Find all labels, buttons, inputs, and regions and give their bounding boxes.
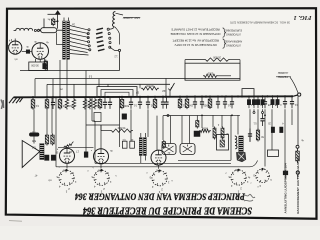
link 92-95 bbox=[92, 120, 95, 122]
drop x265 lower bbox=[264, 109, 266, 166]
capacitor C23 (dark) bbox=[122, 114, 127, 119]
wire x84-88 bbox=[85, 125, 87, 152]
fuse capsule F1 bbox=[29, 133, 39, 136]
drop x292 lower bbox=[291, 109, 293, 125]
R4 lead bbox=[218, 75, 231, 77]
switch position labels bbox=[97, 28, 104, 30]
capacitor Cb25 bbox=[217, 97, 219, 101]
drop x262 bbox=[262, 109, 264, 111]
drop x47 low bbox=[46, 109, 48, 133]
riser x35 bbox=[34, 79, 36, 97]
capacitor Ce1 (block) bbox=[248, 97, 250, 99]
wire F1 to speaker bbox=[33, 136, 35, 143]
output box bbox=[217, 135, 229, 151]
L2 bottom wire right bbox=[115, 27, 120, 45]
speaker magnet blob bbox=[237, 153, 246, 162]
bus junction dots bbox=[32, 96, 34, 98]
capacitor Cb16 bbox=[147, 98, 149, 102]
capacitor C14 (black) bbox=[45, 155, 49, 160]
capacitor Cb11 bbox=[104, 98, 106, 102]
terminal circle r1 bbox=[253, 112, 255, 114]
terminal T4 lead stub bbox=[285, 175, 287, 179]
V1 grid top lead bbox=[14, 39, 16, 42]
capsule left tip bbox=[38, 29, 41, 31]
V3 top lead bbox=[66, 147, 68, 148]
svg-text:5000: 5000 bbox=[202, 127, 208, 130]
svg-text:1M: 1M bbox=[190, 104, 193, 107]
wire S2 down bbox=[119, 52, 121, 71]
resistor Rb17 bbox=[154, 98, 156, 100]
V1 left lead bbox=[7, 45, 9, 47]
riser x60 bbox=[59, 71, 61, 97]
capacitor Cb26 bbox=[224, 97, 226, 101]
switch contact S2 bbox=[118, 49, 120, 51]
terminal circle m1 bbox=[167, 115, 169, 117]
tube V5 bbox=[151, 150, 166, 165]
output transformer T3 core bbox=[239, 136, 243, 152]
resistor Rz9 bbox=[93, 98, 96, 110]
earth terminal circle bbox=[298, 93, 301, 96]
svg-text:0,1: 0,1 bbox=[294, 103, 298, 106]
switch contact column 2 bbox=[107, 28, 109, 30]
drop x95 lower bbox=[94, 121, 96, 163]
capacitor Ce4 (block) bbox=[262, 97, 264, 99]
trimmer contact c1 bbox=[34, 29, 36, 31]
terminal circle r2 bbox=[262, 112, 264, 114]
capacitor Cb23 bbox=[201, 98, 203, 102]
resistor R8b bbox=[196, 119, 198, 121]
terminal block T4 bbox=[283, 171, 288, 175]
svg-text:EUROPEENNE: EUROPEENNE bbox=[225, 28, 242, 31]
switch wiper wire bbox=[110, 47, 118, 50]
riser x140 bbox=[139, 84, 141, 88]
riser x47 bbox=[46, 84, 48, 96]
V2 pin stubs bbox=[35, 59, 37, 62]
T2 top leads bbox=[140, 133, 142, 138]
R3 leads bbox=[184, 60, 186, 64]
capacitor C13 bbox=[249, 129, 251, 134]
aerial coil L2 bbox=[112, 12, 115, 27]
drop x163 lower bbox=[162, 116, 164, 140]
wire C2 to V2 bbox=[30, 51, 32, 53]
output transformer T3 primary coil bbox=[235, 136, 237, 149]
terminal circle above R12 bbox=[296, 145, 299, 148]
screen box dark cell bbox=[43, 63, 47, 68]
IF transformer T1 windings bbox=[63, 21, 66, 59]
drop x258 lower bbox=[257, 109, 259, 130]
drop x92 bbox=[91, 97, 93, 121]
D1 cross marks bbox=[165, 145, 174, 153]
small box right bbox=[242, 89, 254, 97]
V3 bottom stub bbox=[66, 163, 68, 168]
rail y115 dots bbox=[201, 115, 203, 117]
svg-text:FIG. 1: FIG. 1 bbox=[293, 14, 311, 21]
capacitor Cb22 bbox=[194, 98, 196, 102]
link R1 to lead bbox=[53, 20, 57, 22]
svg-text:5000: 5000 bbox=[123, 104, 129, 107]
resistor Rz6 bbox=[72, 98, 75, 110]
padder capsule C1 bbox=[41, 28, 57, 33]
svg-text:50.000: 50.000 bbox=[146, 84, 154, 87]
note brace lower bbox=[223, 39, 226, 48]
drop x238 bbox=[237, 115, 239, 134]
coil label underline bbox=[124, 17, 141, 19]
resistor R11 bbox=[257, 129, 259, 131]
resistor R8 zigzag bbox=[199, 129, 211, 132]
grid line y147 bbox=[58, 146, 94, 148]
tube V4 bbox=[94, 149, 109, 164]
capacitor C22 (dark) bbox=[280, 127, 283, 133]
T2 bottom leads bbox=[140, 156, 142, 164]
wire V1 to C2 bbox=[22, 51, 26, 53]
svg-text:AARDE: AARDE bbox=[277, 71, 289, 75]
capacitor Cb19 bbox=[166, 98, 168, 102]
drop x213 bbox=[212, 115, 214, 127]
resistor Rz7 bbox=[83, 98, 86, 110]
earth label underline bbox=[276, 76, 291, 78]
L1 left tail bbox=[14, 30, 16, 32]
wire riser to capsule bbox=[43, 19, 45, 28]
potentiometer wiper bbox=[168, 83, 174, 91]
resistor R1 bbox=[52, 18, 54, 20]
terminal circle T5 bbox=[296, 171, 299, 174]
capacitor Cb28 bbox=[264, 97, 266, 101]
pot body wire bbox=[169, 91, 171, 97]
capacitor C12 (black) bbox=[194, 131, 200, 137]
rail y166 hook bbox=[250, 161, 258, 167]
drop x182 bbox=[181, 115, 183, 143]
svg-text:20.000: 20.000 bbox=[213, 55, 221, 58]
drop x297 bbox=[297, 149, 299, 164]
long rail y166 bbox=[56, 166, 250, 168]
wire R6 left bbox=[101, 130, 110, 132]
aerial base wire bbox=[48, 13, 61, 15]
drop x195 lower bbox=[196, 115, 198, 119]
svg-text:1M: 1M bbox=[162, 89, 165, 92]
drop x119 lower bbox=[119, 97, 121, 147]
capacitor Ce6 (block) bbox=[277, 97, 279, 99]
resistor R10 bbox=[222, 127, 224, 129]
drop x272 lower bbox=[271, 109, 273, 150]
chassis bus bbox=[14, 96, 294, 97]
aerial terminal A1 bbox=[55, 11, 60, 15]
capacitor Cb18 bbox=[162, 98, 164, 102]
svg-text:0,1: 0,1 bbox=[35, 104, 39, 107]
svg-text:AANSLUITING LUIDSPREKER 364: AANSLUITING LUIDSPREKER 364 bbox=[284, 163, 288, 213]
resistor Rz8 bbox=[88, 98, 91, 110]
drop x170 bbox=[170, 115, 172, 143]
riser x67 top bbox=[66, 59, 68, 78]
riser x99 bbox=[98, 79, 100, 87]
wire rail y78 bbox=[35, 77, 240, 79]
resistor R5 bbox=[141, 87, 159, 90]
L2 lead to label bbox=[116, 13, 124, 15]
diode capsule D1 bbox=[162, 144, 176, 155]
tube V1 bbox=[9, 41, 22, 54]
svg-text:38 HOU. SCHEMANUMMER ALGEMEEN: 38 HOU. SCHEMANUMMER ALGEMEEN 3270 bbox=[229, 21, 290, 25]
feedback box bbox=[185, 63, 240, 80]
drop x250 lower bbox=[249, 109, 251, 142]
socket ring V7 (partial) bbox=[256, 169, 270, 183]
T1 top lead bbox=[63, 18, 65, 22]
tube V3 bbox=[60, 148, 75, 163]
svg-text:ONTVANGER VR Nr 12.34 ONTV.: ONTVANGER VR Nr 12.34 ONTV. bbox=[174, 43, 217, 47]
resistor R7 bbox=[163, 140, 165, 142]
svg-text:RECEPTEUR AV. No 12.34 RECEPT.: RECEPTEUR AV. No 12.34 RECEPT. bbox=[172, 39, 219, 43]
capacitor C10 bbox=[122, 141, 127, 148]
resistor Rb13 bbox=[121, 98, 123, 100]
resistor R3 in box top bbox=[204, 58, 230, 61]
speaker voice coil bbox=[40, 144, 44, 160]
resistor R2 bbox=[45, 60, 47, 62]
svg-text:TB2: TB2 bbox=[31, 146, 36, 149]
drop x56 bbox=[55, 97, 57, 167]
L2 bottom wire bbox=[109, 27, 114, 29]
capacitor Cb29 bbox=[284, 97, 286, 101]
small box right low bbox=[268, 150, 279, 156]
resistor R12 bbox=[297, 150, 299, 152]
svg-text:SP: SP bbox=[136, 91, 140, 94]
riser x53 bbox=[52, 79, 54, 97]
IF transformer T2 bbox=[139, 138, 142, 156]
magnet cross bbox=[238, 154, 245, 160]
screen box bbox=[29, 62, 48, 71]
riser x166 bbox=[165, 78, 167, 96]
drop x202 lower bbox=[201, 115, 203, 128]
capacitor Cb14 bbox=[130, 98, 132, 102]
drop x131 lower bbox=[130, 109, 132, 141]
riser x74 bbox=[73, 84, 75, 96]
drop x101 bbox=[100, 125, 102, 149]
capacitor Ce3 (block) bbox=[257, 97, 259, 99]
socket ring V3 bbox=[59, 170, 74, 185]
mid box row2 bbox=[94, 113, 101, 122]
coil L1 bbox=[16, 28, 33, 30]
svg-text:ONTVANGER Nr 12.34 EN VOLGENDE: ONTVANGER Nr 12.34 EN VOLGENDE bbox=[170, 32, 220, 36]
capacitor C15 (black) bbox=[51, 155, 55, 160]
svg-text:50.000: 50.000 bbox=[117, 126, 125, 129]
capacitor C20 bbox=[262, 114, 264, 119]
riser x86 bbox=[85, 71, 87, 97]
svg-text:ANT. AARDE: ANT. AARDE bbox=[122, 16, 142, 20]
aerial down lead bbox=[57, 14, 59, 28]
coupling cap C2 bbox=[26, 50, 30, 54]
trimmer contact c2 bbox=[37, 29, 39, 31]
capacitor C11 bbox=[130, 141, 135, 148]
resistor Rb2 bbox=[46, 98, 48, 100]
V4 bottom stub bbox=[100, 164, 102, 169]
riser x67 bbox=[66, 79, 68, 97]
junction a bbox=[57, 20, 59, 22]
capacitor Cb30 bbox=[291, 97, 293, 101]
drop x285 lower bbox=[284, 109, 286, 171]
svg-text:RACCORDEMENT HAUT PARLEUR 364: RACCORDEMENT HAUT PARLEUR 364 bbox=[296, 156, 300, 214]
capacitor Ce2 (block) bbox=[253, 97, 255, 99]
long rail y160 bbox=[178, 159, 231, 161]
terminal T5 lead stub bbox=[297, 174, 299, 178]
long rail y163 bbox=[95, 162, 231, 164]
drop x157 bbox=[156, 116, 158, 150]
svg-text:0,1: 0,1 bbox=[133, 104, 137, 107]
rail y115 bbox=[163, 114, 240, 116]
svg-text:50.000: 50.000 bbox=[31, 64, 39, 67]
svg-text:RECEPTEUR No 12.34 ET SUIVANTS: RECEPTEUR No 12.34 ET SUIVANTS bbox=[171, 28, 219, 32]
resistor Rb24 bbox=[209, 97, 211, 99]
wire rail y70 bbox=[20, 70, 120, 72]
ground symbol bbox=[9, 97, 23, 103]
wire rail y84 bbox=[47, 83, 170, 85]
output box cell bbox=[220, 140, 225, 147]
capacitor C21 (dark) bbox=[271, 127, 274, 133]
capacitor Cb3 bbox=[52, 98, 54, 102]
resistor Rb20 bbox=[179, 98, 181, 100]
capacitor Cb12 bbox=[109, 98, 111, 102]
tube V2 (ECH3) bbox=[32, 43, 49, 60]
socket ring V5 bbox=[152, 171, 167, 186]
note brace upper bbox=[223, 28, 226, 37]
drop x222 bbox=[221, 115, 223, 127]
drop x52 bbox=[51, 97, 53, 134]
resistor Rb10 bbox=[99, 98, 101, 100]
svg-text:5000: 5000 bbox=[207, 72, 213, 75]
riser x60b bbox=[59, 60, 61, 71]
svg-text:UITVOERING: UITVOERING bbox=[226, 43, 241, 46]
svg-text:AMERIKAANSE: AMERIKAANSE bbox=[224, 39, 242, 42]
capacitor Ce5 (block) bbox=[272, 97, 274, 99]
resistor R4 in box bbox=[203, 74, 218, 77]
resistor R6 (5000 ohm) bbox=[110, 129, 133, 132]
osc box right edge bbox=[56, 33, 58, 45]
drop x86 lower bbox=[85, 97, 87, 125]
resistor R9 bbox=[214, 127, 216, 129]
drop x231 bbox=[230, 115, 232, 160]
drop x189 bbox=[189, 115, 191, 143]
capsule to transformer wire bbox=[57, 29, 63, 31]
V5 bottom stub bbox=[158, 165, 160, 169]
svg-text:UITVOERING: UITVOERING bbox=[226, 32, 241, 35]
switch contact column 1 bbox=[88, 29, 90, 31]
earth down wire bbox=[297, 96, 299, 145]
D2 cross marks bbox=[183, 145, 192, 153]
AVC box inner 2 bbox=[105, 92, 129, 97]
socket ring V4 bbox=[94, 170, 109, 185]
resistor Rz5 bbox=[65, 98, 68, 110]
bus end hook bbox=[293, 95, 298, 96]
band switch fan wires bbox=[70, 26, 88, 30]
wire down x34 bbox=[33, 109, 35, 132]
socket ring V6 bbox=[231, 170, 246, 185]
drop x148 lower bbox=[147, 109, 149, 137]
AVC box outer bbox=[97, 87, 137, 97]
capacitor Cb15 bbox=[139, 98, 141, 102]
rail y125 left bbox=[86, 124, 120, 126]
resistor R13 bbox=[46, 134, 48, 136]
earth leader curve bbox=[290, 77, 298, 93]
resistor R15 slanted bbox=[64, 142, 74, 148]
cap C16 between tubes bbox=[84, 152, 88, 158]
drop x254 bbox=[253, 109, 255, 111]
resistor Rb1 bbox=[32, 98, 34, 100]
speaker cone bbox=[22, 141, 40, 168]
svg-text:SCHEMA DE PRINCIPE DU RECEPTEU: SCHEMA DE PRINCIPE DU RECEPTEUR 364 bbox=[83, 205, 252, 217]
resistor Rb4 bbox=[59, 98, 61, 100]
diode capsule D2 bbox=[180, 144, 195, 155]
riser x108 bbox=[107, 84, 109, 86]
resistor R14 bbox=[52, 134, 54, 136]
capacitor Cb27 bbox=[231, 97, 233, 101]
resistor Rb21 bbox=[186, 98, 188, 100]
AVC box inner bbox=[101, 90, 133, 97]
